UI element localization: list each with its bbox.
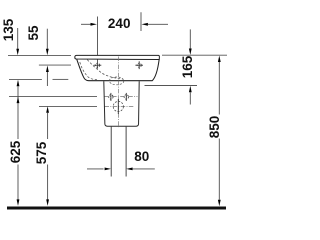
label 80 (127, 152, 157, 162)
washbasin body outline (77, 59, 159, 80)
wire: 165 lower extension line (145, 85, 198, 87)
dimension 240 right arrow (142, 23, 148, 26)
node: 240 right extension bar (140, 12, 142, 31)
dimension 55 bottom arrow (46, 66, 49, 73)
dimension 575 line (46, 106, 49, 113)
dimension 80 arrows (87, 168, 104, 170)
dimension 850 line (218, 56, 221, 63)
bowl hidden line back (87, 60, 123, 80)
label 850 (210, 112, 220, 142)
dimension 135 bottom arrow + 625 line (17, 80, 20, 87)
wire: right rim extension line (162, 54, 227, 56)
dimension 165 bottom arrow (189, 86, 192, 93)
drain pipe right line (125, 127, 127, 177)
center line (118, 57, 120, 128)
label 165 (183, 52, 193, 82)
wire: tap-hole centerline left (55 ref) (39, 64, 71, 66)
dimension 55 top arrow (46, 29, 48, 49)
label 135 (4, 15, 14, 45)
label 575 (37, 138, 47, 168)
bowl hidden line front (80, 62, 97, 80)
floor line (7, 207, 226, 210)
label 240 (104, 19, 134, 29)
drain pipe left line (110, 127, 112, 177)
dimension 135 top arrow (17, 28, 19, 49)
label 55 (29, 18, 39, 48)
dimension 165 top arrow (189, 29, 191, 48)
washbasin rim slab (75, 55, 160, 59)
node: 240 left extension bar through tap hole (97, 17, 99, 69)
wire: drain centerline (575 ref) (39, 105, 97, 107)
tap hole cross right (135, 64, 143, 66)
tap hole cross left (94, 64, 102, 66)
wire: 135 lower extension line (9, 78, 42, 80)
dimension 240 left arrow (81, 23, 91, 25)
drain hole (117, 99, 119, 114)
fixing hole left (110, 93, 112, 101)
pedestal (siphon cover) (104, 81, 139, 126)
label 625 (11, 137, 21, 167)
wire: fixing hole centerline (625 ref) (9, 96, 97, 98)
trap hidden outline (109, 77, 124, 85)
fixing hole right (125, 93, 127, 101)
wire: left rim extension line (8, 54, 71, 56)
